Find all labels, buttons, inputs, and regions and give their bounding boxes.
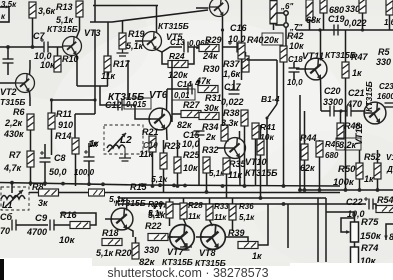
bus wire A	[0, 183, 340, 187]
svg-text:R37: R37	[223, 59, 241, 69]
wire C13 right	[188, 46, 200, 48]
wire R38 down	[244, 131, 246, 186]
ground under R19	[117, 49, 129, 56]
junction	[183, 184, 187, 188]
resistor R24	[168, 61, 188, 68]
resistor R48	[337, 123, 344, 139]
wire R50 top	[359, 150, 361, 163]
wire VT7 base	[168, 236, 173, 238]
wire rail y30	[296, 29, 393, 31]
junction	[205, 190, 209, 194]
coil L2 arrow	[108, 133, 126, 152]
svg-text:VT10: VT10	[245, 157, 267, 167]
transistor VT9 top	[210, 0, 229, 17]
capacitor C12	[118, 100, 122, 111]
junction C19	[318, 28, 321, 31]
resistor top col a	[270, 0, 277, 23]
svg-text:R35: R35	[229, 159, 247, 169]
transistor VT4	[111, 208, 133, 230]
transistor VT7	[170, 225, 195, 250]
capacitor C18	[289, 68, 300, 72]
junction C7	[31, 45, 35, 49]
svg-text:R40: R40	[247, 35, 264, 45]
resistor R19	[119, 33, 126, 49]
svg-text:3,6к: 3,6к	[38, 6, 56, 16]
wire R21 down	[152, 152, 154, 186]
svg-text:2,2к: 2,2к	[4, 118, 23, 128]
svg-text:1,6к: 1,6к	[223, 69, 241, 79]
svg-text:0,022: 0,022	[344, 18, 367, 28]
resistor R11	[48, 113, 55, 129]
svg-text:5,1к: 5,1к	[239, 213, 255, 222]
svg-text:R30: R30	[203, 64, 220, 74]
transistor VT11	[305, 58, 327, 80]
junction	[87, 182, 91, 186]
resistor R8	[39, 189, 59, 196]
junction	[303, 188, 307, 192]
svg-text:R16: R16	[60, 210, 78, 220]
svg-text:1к: 1к	[252, 251, 262, 261]
wire x108 vertical	[107, 22, 109, 56]
wire R29 left	[196, 47, 199, 49]
wire VT3 collector	[77, 17, 80, 38]
svg-text:5,1к: 5,1к	[126, 41, 144, 51]
coil L1 arrow	[5, 190, 23, 207]
wire VT6 emitter	[166, 128, 169, 141]
wire y86 VT3 emitter row	[77, 85, 108, 87]
boxed value 20k	[262, 33, 283, 45]
junction	[344, 188, 348, 192]
svg-text:0,01: 0,01	[174, 91, 190, 100]
svg-text:VT8: VT8	[199, 248, 216, 258]
svg-text:330: 330	[376, 57, 391, 67]
wire R26	[169, 198, 171, 202]
wire R38 down	[244, 126, 246, 131]
resistor R42	[280, 46, 287, 62]
wire terminal 7 down	[285, 27, 287, 46]
wire R11 bottom	[51, 129, 53, 155]
svg-text:10к: 10к	[289, 41, 304, 51]
svg-text:R54: R54	[377, 195, 393, 205]
wire vertical x95	[94, 86, 96, 114]
resistor R13	[76, 1, 83, 17]
svg-text:R27: R27	[183, 100, 201, 110]
svg-text:V1: V1	[386, 153, 393, 162]
wire C16 left	[223, 46, 238, 48]
svg-text:Д: Д	[386, 165, 393, 174]
watermark band	[0, 266, 393, 280]
junction	[318, 188, 322, 192]
svg-text:R29: R29	[205, 35, 222, 45]
wire R40 feed	[241, 0, 243, 43]
svg-text:VT7: VT7	[167, 247, 185, 257]
wire terminal 6-7	[285, 15, 287, 22]
resistor R36	[229, 204, 236, 220]
junction C21	[339, 109, 342, 112]
svg-text:VT2: VT2	[0, 87, 17, 97]
wire VT4 base	[105, 218, 113, 220]
wire R46	[319, 140, 321, 141]
capacitor C6	[12, 220, 16, 231]
coil L2 winding	[107, 145, 125, 148]
wire C7 to VT3 base	[48, 46, 62, 48]
wire top rail y5	[93, 5, 158, 7]
wire switch bottom	[266, 118, 268, 186]
wire R44 top	[304, 111, 306, 144]
capacitor C8	[40, 158, 51, 162]
resistor R30	[198, 86, 218, 93]
svg-text:R6: R6	[13, 107, 25, 117]
wire R39 top	[226, 237, 248, 241]
resistor R16	[70, 222, 90, 229]
resistor 1k column	[75, 154, 77, 186]
transistor VT3	[63, 37, 82, 56]
wire bus y100	[52, 99, 96, 101]
wire R11 top	[51, 100, 53, 113]
resistor R33	[206, 204, 213, 220]
junction	[29, 181, 33, 185]
svg-text:R44: R44	[300, 133, 317, 143]
wire x222 long vertical	[222, 47, 224, 125]
svg-text:L2: L2	[120, 135, 132, 146]
svg-text:11к: 11к	[188, 212, 201, 221]
potentiometer R75	[351, 222, 359, 242]
svg-text:8,2к: 8,2к	[339, 140, 357, 150]
wire R35 down	[226, 174, 228, 198]
svg-text:С8: С8	[54, 153, 66, 163]
svg-text:R34: R34	[202, 122, 219, 132]
junction	[358, 188, 362, 192]
junction	[376, 188, 380, 192]
junction	[176, 184, 180, 188]
svg-text:R14: R14	[55, 131, 72, 141]
svg-text:shutterstock.com · 38278573: shutterstock.com · 38278573	[107, 266, 268, 280]
transistor VT8	[201, 225, 226, 250]
arrow node 8	[386, 224, 393, 240]
resistor top col b	[306, 0, 313, 20]
svg-text:10к: 10к	[59, 235, 76, 246]
wire VT11 emitter	[320, 78, 323, 112]
wire terminal 6 left	[276, 13, 284, 25]
wire L1 tap	[11, 183, 13, 193]
resistor R37	[242, 56, 249, 72]
resistor R10	[54, 56, 61, 72]
wire x288 vertical	[287, 204, 289, 248]
wire R6 to R7	[30, 130, 32, 151]
bus wire y204	[118, 203, 366, 205]
wire left edge to VT2 base	[0, 82, 16, 84]
wire R20 top	[135, 237, 137, 243]
wire R44 bottom	[304, 160, 306, 190]
junction input node	[6, 45, 10, 49]
wire R7 bottom	[30, 167, 32, 186]
svg-text:10,0: 10,0	[287, 78, 303, 87]
resistor R47	[342, 62, 349, 78]
junction x95	[93, 98, 96, 101]
resistor R20	[132, 243, 139, 259]
resistor R23	[160, 153, 167, 169]
wire C12 to VT6 base	[122, 105, 151, 119]
svg-text:5,1к: 5,1к	[151, 174, 168, 184]
svg-text:30к: 30к	[204, 103, 219, 113]
wire R42 down	[283, 62, 285, 186]
capacitor C21	[347, 106, 351, 117]
wire x300 vertical	[299, 95, 301, 190]
wire switch top	[276, 60, 278, 104]
svg-text:L1: L1	[2, 200, 13, 210]
wire VT2 emitter	[29, 92, 32, 107]
svg-text:11к: 11к	[228, 170, 242, 180]
wire top rail drop x95	[94, 0, 96, 22]
capacitor C9	[50, 220, 54, 231]
svg-text:3300: 3300	[323, 97, 343, 107]
component box edge	[0, 7, 9, 22]
wire R47 bottom	[345, 78, 347, 190]
resistor R26	[166, 202, 173, 218]
wire R39 right	[258, 222, 268, 245]
wire y190 right	[300, 189, 393, 191]
wire C20-C21 row	[321, 110, 330, 112]
capacitor C22	[369, 199, 373, 210]
resistor R14	[72, 138, 79, 154]
wire R75-R74	[354, 242, 356, 247]
wire y60	[247, 59, 277, 61]
svg-text:Т315Б: Т315Б	[0, 97, 25, 107]
bus wire y198	[118, 197, 326, 199]
wire R47 top	[345, 30, 347, 62]
junction	[43, 181, 47, 185]
wire R23 down	[163, 169, 165, 192]
svg-text:С22: С22	[346, 197, 363, 207]
wire VT5 base from left	[135, 40, 143, 42]
svg-text:R24: R24	[169, 51, 185, 61]
svg-text:1к: 1к	[364, 174, 374, 184]
wire x122 drop from rail	[122, 20, 124, 33]
R75 wiper	[341, 218, 355, 232]
svg-text:R31: R31	[205, 93, 222, 103]
junction	[151, 184, 155, 188]
svg-text:47к: 47к	[195, 76, 211, 86]
svg-text:8: 8	[389, 232, 393, 242]
junction	[243, 184, 247, 188]
bus wire B	[29, 192, 340, 194]
boxed value 0,015	[124, 98, 151, 109]
junction	[282, 202, 286, 206]
svg-text:R18: R18	[102, 228, 119, 238]
wire left to C7	[0, 46, 44, 48]
svg-text:68к: 68к	[306, 15, 321, 25]
capacitor C15	[194, 131, 205, 135]
resistor R6	[27, 114, 34, 130]
wire VT5 collector	[156, 6, 158, 33]
capacitor C20	[330, 106, 334, 117]
svg-text:R38: R38	[223, 108, 240, 118]
wire VT10 base	[218, 147, 226, 149]
resistor R46	[316, 141, 323, 157]
wire R23 top	[163, 140, 165, 153]
wire x268 vertical	[267, 204, 269, 222]
svg-text:100,0: 100,0	[74, 168, 95, 177]
svg-text:24к: 24к	[202, 51, 218, 61]
wire R16 up loop	[60, 213, 96, 225]
svg-text:470: 470	[346, 99, 362, 109]
resistor R25	[174, 157, 181, 173]
wire R25 top	[177, 140, 179, 157]
svg-text:R33: R33	[214, 202, 229, 211]
svg-text:910: 910	[58, 120, 73, 130]
svg-text:Сб: Сб	[0, 212, 12, 222]
svg-text:3,3к: 3,3к	[221, 118, 239, 128]
svg-text:330: 330	[144, 245, 159, 255]
svg-text:R28: R28	[188, 201, 203, 210]
junction	[10, 181, 14, 185]
svg-text:R50: R50	[338, 164, 356, 175]
svg-text:1к: 1к	[90, 139, 99, 148]
wire C9 right	[54, 224, 70, 226]
svg-text:R22: R22	[145, 221, 162, 231]
svg-text:50,0: 50,0	[49, 167, 67, 177]
svg-text:КТ315Б: КТ315Б	[115, 198, 146, 208]
svg-text:R5: R5	[378, 47, 390, 57]
svg-text:1,6: 1,6	[384, 18, 393, 27]
resistor R34b top	[257, 139, 264, 155]
wire R32 down	[206, 173, 208, 192]
junction	[298, 188, 302, 192]
resistor R38	[241, 110, 248, 126]
coil L1 winding	[1, 196, 25, 200]
wire C14 left	[167, 88, 188, 90]
svg-text:R20: R20	[115, 248, 132, 258]
junction	[158, 183, 162, 187]
svg-text:120к: 120к	[168, 70, 188, 80]
svg-text:10к: 10к	[40, 60, 55, 70]
svg-text:VT3: VT3	[84, 28, 101, 38]
resistor R28	[180, 203, 187, 219]
svg-text:R47: R47	[351, 52, 369, 62]
svg-text:R46: R46	[325, 140, 340, 149]
svg-text:3,5к: 3,5к	[1, 0, 17, 9]
resistor top col c	[320, 0, 327, 13]
wire R33	[209, 198, 211, 204]
resistor top col d	[359, 0, 366, 13]
wire VT10 emitter	[239, 157, 242, 187]
svg-text:КТ315Б: КТ315Б	[245, 168, 278, 178]
svg-text:R26: R26	[148, 200, 163, 209]
wire VT9 emitter down	[222, 17, 224, 48]
svg-text:4700: 4700	[26, 227, 47, 237]
svg-text:С21: С21	[348, 88, 365, 98]
svg-text:С10: С10	[143, 141, 158, 150]
resistor R52	[374, 163, 381, 179]
resistor R39	[238, 242, 258, 249]
wire y114	[75, 113, 95, 115]
boxed value 0,01	[172, 89, 195, 100]
junction	[221, 184, 225, 188]
wire R10 top	[57, 47, 59, 56]
svg-text:0,022: 0,022	[221, 97, 244, 107]
wire x128 vertical	[127, 60, 129, 100]
resistor R22	[148, 234, 168, 241]
ground VT7	[180, 243, 192, 250]
svg-text:3к: 3к	[38, 198, 48, 208]
wire VT10 collector	[239, 131, 241, 140]
terminal 7	[284, 23, 288, 27]
resistor R7	[27, 151, 34, 167]
svg-text:С14: С14	[177, 80, 192, 89]
wire VT6 collector	[166, 89, 169, 111]
wire R40 down	[241, 59, 243, 80]
resistor R15	[89, 189, 105, 196]
capacitor C16	[237, 42, 241, 53]
resistor R40	[238, 43, 245, 59]
capacitor C19	[334, 25, 338, 36]
wire VT4 collector	[126, 198, 129, 211]
wire R27 left	[172, 113, 181, 115]
wire R9 down	[32, 18, 34, 47]
wire C12 left	[100, 86, 118, 105]
svg-text:VT6: VT6	[149, 90, 168, 101]
wire R52	[377, 150, 379, 163]
capacitor C13	[184, 42, 188, 53]
svg-text:R25: R25	[183, 150, 201, 160]
svg-text:КТ315Б: КТ315Б	[158, 21, 189, 31]
resistor R34a	[221, 125, 228, 141]
switch B1-4	[267, 104, 277, 118]
transistor VT10	[225, 138, 246, 159]
wire VT2 collector	[29, 60, 32, 75]
svg-text:С18: С18	[288, 55, 303, 64]
resistor R32	[203, 157, 210, 173]
svg-text:62к: 62к	[300, 163, 315, 173]
svg-text:82к: 82к	[177, 120, 192, 130]
resistor R74	[351, 247, 359, 265]
wire VT9 base	[196, 7, 209, 9]
svg-text:1к: 1к	[352, 68, 362, 78]
svg-text:680: 680	[325, 151, 339, 160]
wire VT11 collector	[320, 30, 322, 61]
ground center	[119, 154, 131, 161]
wire R25 down	[177, 173, 179, 186]
junction	[61, 182, 65, 186]
capacitor input left	[3, 59, 14, 63]
resistor R44	[301, 144, 308, 160]
resistor R18	[102, 239, 122, 246]
svg-text:R48: R48	[344, 121, 361, 131]
svg-text:R11: R11	[56, 109, 72, 119]
wire R48 top	[340, 111, 342, 123]
svg-text:R15: R15	[130, 182, 148, 192]
svg-text:R32: R32	[202, 145, 219, 155]
junction	[140, 183, 144, 187]
bus riser x326	[325, 198, 327, 262]
svg-text:С13: С13	[170, 38, 185, 47]
svg-text:430к: 430к	[3, 129, 24, 139]
capacitor C23	[385, 103, 393, 107]
capacitor C14	[188, 84, 192, 95]
svg-text:R36: R36	[239, 202, 254, 211]
junction	[101, 182, 105, 186]
transistor VT12	[364, 102, 386, 124]
wire C6 to C9	[16, 224, 48, 226]
junction	[259, 196, 263, 200]
resistor R50	[356, 163, 363, 179]
svg-text:10к: 10к	[183, 163, 198, 173]
wire R36	[232, 198, 234, 204]
wire VT5 emitter to C13	[157, 47, 183, 52]
resistor R54	[376, 206, 393, 213]
svg-text:R19: R19	[128, 29, 145, 39]
wire C15 down	[198, 138, 200, 186]
